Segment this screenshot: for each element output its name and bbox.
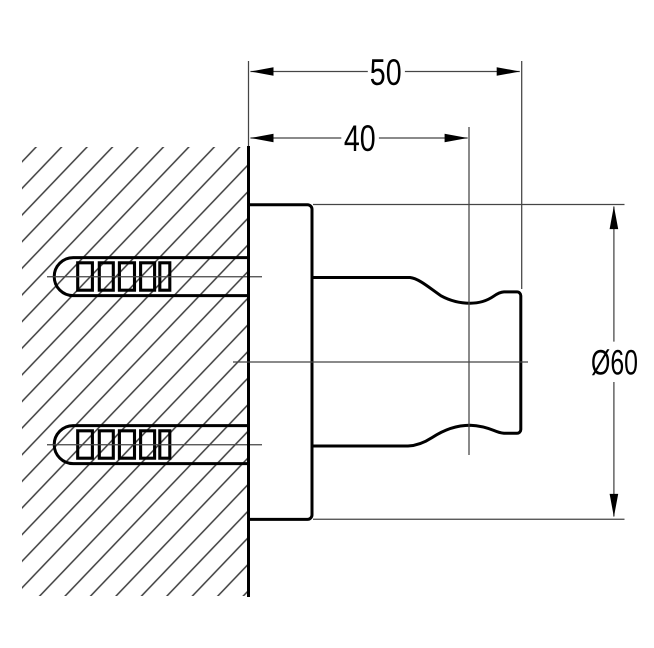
anchor lower slot 4 (141, 431, 155, 458)
anchor upper centerline (47, 276, 262, 278)
anchor lower slot 2 (99, 431, 113, 458)
svg-text:Ø60: Ø60 (591, 343, 638, 382)
anchor upper slot 5 (160, 263, 170, 290)
extension line left (wall face) (248, 61, 250, 146)
anchor plug lower (body) (54, 426, 250, 464)
svg-text:40: 40 (344, 119, 376, 160)
svg-text:50: 50 (370, 52, 402, 93)
anchor upper slot 2 (99, 263, 113, 290)
anchor lower centerline (47, 444, 262, 446)
arrow 50 right (497, 67, 520, 76)
anchor lower slot 3 (119, 431, 134, 458)
holder body outline (312, 278, 521, 447)
anchor lower slot 5 (160, 431, 170, 458)
arrow diameter top (610, 206, 619, 229)
arrow diameter bottom (610, 494, 619, 517)
wall plate outline (249, 205, 313, 520)
dimension line 40 (250, 137, 341, 139)
anchor lower slot 1 (78, 431, 93, 458)
dimension line diameter 60 (613, 207, 615, 342)
arrow 50 left (250, 67, 273, 76)
wall hatching (22, 147, 249, 596)
anchor upper slot 4 (141, 263, 155, 290)
extension line 40 right (468, 127, 470, 455)
anchor upper slot 1 (78, 263, 93, 290)
extension line 50 right (521, 61, 523, 289)
extension line diameter top (313, 204, 625, 206)
anchor upper slot 3 (119, 263, 134, 290)
wall face line (247, 146, 250, 597)
anchor plug upper (body) (54, 258, 250, 296)
dimension line 50 (250, 71, 367, 73)
extension line diameter bottom (313, 518, 625, 520)
arrow 40 right (445, 134, 468, 143)
arrow 40 left (250, 134, 273, 143)
holder axis centerline (233, 361, 528, 363)
